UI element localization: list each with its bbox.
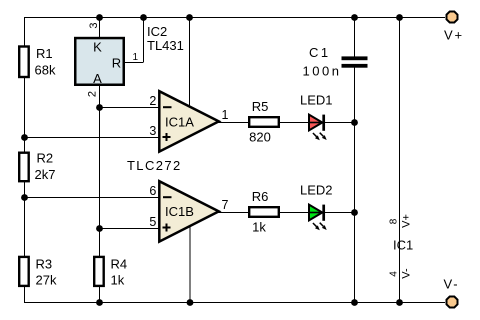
wire IC1A non-inverting input pin 3 (24, 137, 159, 139)
svg-text:V-: V- (401, 268, 413, 279)
junction R4 to IC1B pin5 (96, 225, 103, 232)
svg-text:IC1: IC1 (393, 238, 413, 253)
wire IC1 supply branch (399, 17, 401, 302)
op-amp IC1B (159, 181, 219, 241)
junction R1/R2 node (21, 134, 28, 141)
svg-text:68k: 68k (35, 63, 56, 78)
svg-text:6: 6 (149, 184, 156, 198)
svg-text:R1: R1 (36, 46, 53, 61)
wire IC1A output pin 1 to R5 (218, 122, 249, 124)
resistor R4 (94, 257, 127, 288)
resistor R2 (19, 151, 55, 183)
svg-text:LED1: LED1 (300, 93, 333, 108)
svg-text:3: 3 (88, 22, 100, 28)
wire top rail V+ (24, 17, 445, 19)
shunt regulator IC2 TL431 body (75, 38, 124, 86)
junction top rail at C1 (351, 14, 358, 21)
svg-text:LED2: LED2 (300, 183, 333, 198)
svg-text:IC1B: IC1B (165, 204, 194, 219)
svg-text:100n: 100n (303, 63, 342, 78)
svg-text:R3: R3 (36, 257, 53, 272)
svg-text:2k7: 2k7 (35, 167, 56, 182)
wire R6 to LED2 (280, 212, 310, 214)
svg-text:TL431: TL431 (147, 38, 184, 53)
svg-text:2: 2 (149, 94, 156, 108)
junction top rail at IC1 supply (396, 14, 403, 21)
IC1 supply pin 4 (389, 268, 413, 279)
terminal V+ (444, 12, 464, 43)
junction top rail at TL431 K (96, 14, 103, 21)
svg-text:R: R (112, 55, 121, 70)
junction top rail at TL431 R (140, 14, 147, 21)
wire TL431 ref pin 1 to top rail (125, 17, 144, 63)
svg-text:8: 8 (389, 218, 400, 224)
svg-text:V-: V- (444, 277, 460, 292)
svg-text:TLC272: TLC272 (127, 158, 182, 173)
svg-text:R2: R2 (37, 151, 54, 166)
wire IC1B output pin 7 to R6 (218, 212, 249, 214)
wire LED1 to node (324, 122, 355, 124)
svg-text:V+: V+ (401, 214, 413, 228)
junction anode to IC1A pin2 (96, 104, 103, 111)
svg-text:IC1A: IC1A (165, 115, 194, 130)
wire bottom rail V- (24, 302, 445, 304)
IC1 supply pin 8 (389, 214, 413, 228)
junction bottom rail at R4 (96, 299, 103, 306)
junction LED1 node (351, 119, 358, 126)
svg-text:IC2: IC2 (147, 24, 167, 39)
wire R5 to LED1 (280, 122, 310, 124)
svg-text:27k: 27k (36, 273, 57, 288)
junction R2/R3 node (21, 194, 28, 201)
junction top rail at IC1A supply (186, 14, 193, 21)
svg-text:820: 820 (249, 130, 271, 145)
wire left rail (24, 17, 26, 302)
resistor R1 (19, 46, 56, 78)
svg-text:7: 7 (222, 198, 229, 212)
op-amp IC1A (159, 91, 219, 151)
wire LED2 to node (324, 212, 355, 214)
wire TL431 cathode pin 3 (99, 17, 101, 38)
label IC2 TL431 (147, 24, 184, 53)
LED2 green (308, 205, 327, 231)
junction LED2 node (351, 209, 358, 216)
LED1 red (308, 115, 327, 141)
svg-text:2: 2 (87, 91, 99, 97)
wire C1 branch (354, 17, 356, 302)
svg-text:R5: R5 (252, 99, 269, 114)
wire TL431 anode pin 2 down to R4 (99, 85, 101, 302)
svg-text:5: 5 (149, 215, 156, 229)
svg-text:K: K (93, 40, 102, 55)
resistor R5 (249, 99, 279, 145)
wire IC1B inverting input pin 6 (24, 197, 159, 199)
junction bottom rail at C1 (351, 299, 358, 306)
wire IC1A supply from top rail (189, 17, 191, 107)
junction bottom rail at IC1 supply (396, 299, 403, 306)
wire IC1A inverting input pin 2 (100, 107, 160, 109)
capacitor C1 (303, 45, 368, 78)
svg-text:A: A (93, 71, 102, 86)
resistor R3 (19, 257, 57, 288)
svg-text:V+: V+ (444, 28, 464, 43)
svg-text:1: 1 (133, 52, 139, 63)
svg-text:1k: 1k (111, 273, 125, 288)
wire IC1B supply to bottom rail (189, 225, 191, 302)
svg-text:3: 3 (149, 124, 156, 138)
svg-text:R6: R6 (252, 189, 269, 204)
svg-text:C1: C1 (309, 45, 331, 60)
svg-text:R4: R4 (111, 257, 128, 272)
svg-text:4: 4 (389, 271, 400, 277)
svg-text:1k: 1k (252, 220, 266, 235)
terminal V- (444, 277, 460, 308)
svg-text:1: 1 (222, 108, 229, 122)
resistor R6 (249, 189, 279, 235)
wire IC1B non-inverting input pin 5 (100, 228, 160, 230)
junction bottom rail at IC1B supply (187, 299, 194, 306)
